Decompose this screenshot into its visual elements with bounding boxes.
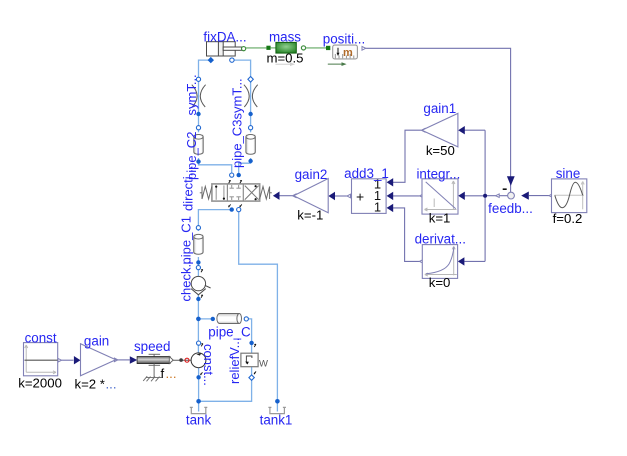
svg-text:const...: const...: [201, 344, 216, 386]
labels blue: [25, 29, 581, 427]
wire pump to node T: [198, 367, 200, 412]
svg-text:k=0: k=0: [429, 275, 451, 290]
relief valve reliefV: [241, 353, 268, 369]
wire const to gain: [62, 359, 74, 361]
svg-text:pipe_C3: pipe_C3: [230, 120, 245, 168]
svg-text:k=50: k=50: [426, 143, 455, 158]
port check bottom: [196, 297, 200, 301]
svg-text:fixDA...: fixDA...: [203, 29, 246, 44]
arrow into gain1: [458, 126, 465, 134]
wire integrator input: [464, 195, 485, 197]
derivative block derivat: [422, 245, 457, 279]
symT orifice left: [192, 85, 206, 107]
svg-text:f: f: [161, 366, 165, 381]
port pipe_C3 top: [249, 126, 253, 130]
arrow add3 input1: [387, 178, 394, 186]
port cylinder bottom left: [208, 57, 214, 63]
wire valve P to pipe_C1: [198, 210, 231, 231]
wire node P to pipe_C: [198, 318, 214, 320]
position sensor positi: [333, 45, 358, 59]
flange rod circle: [242, 47, 246, 51]
svg-text:symT...: symT...: [230, 78, 245, 119]
wire cylinder right port to symT2: [232, 60, 251, 79]
port relief bottom: [249, 375, 254, 380]
wire derivative to add3 input3: [393, 208, 420, 262]
out arrow const: [58, 358, 62, 362]
svg-text:positi...: positi...: [323, 31, 365, 46]
svg-text:1: 1: [374, 200, 381, 215]
labels rotated: [179, 74, 245, 386]
port arrows small: [201, 270, 256, 376]
svg-text:k=2000: k=2000: [18, 376, 62, 391]
port pipe_C1 top: [196, 226, 200, 230]
junction feedback: [483, 194, 487, 198]
pipe_C3 pipe: [246, 135, 255, 155]
port pipe_C left: [211, 317, 215, 321]
arrow sine to feedback: [521, 192, 529, 200]
node P junction: [196, 317, 201, 322]
svg-text:k=1: k=1: [429, 210, 451, 225]
port pipe_C right: [244, 317, 248, 321]
svg-text:directi...: directi...: [181, 165, 196, 211]
valve left spring: [202, 187, 212, 200]
node T junction: [196, 399, 201, 404]
valve right spring: [260, 187, 270, 200]
wire feedback to junction: [485, 195, 508, 197]
flange mass a: [266, 46, 270, 50]
wire add3 to gain2: [335, 195, 348, 197]
wire valve T return to tank1: [239, 210, 278, 412]
tank1: [268, 407, 286, 413]
svg-text:m=0.5: m=0.5: [266, 50, 303, 65]
out arrow gain: [114, 358, 118, 362]
directional valve directi: [200, 180, 272, 207]
speed source: [130, 354, 173, 381]
svg-text:integr...: integr...: [416, 166, 460, 181]
svg-text:...: ...: [166, 366, 177, 381]
add3_1 block: [352, 177, 387, 215]
port symT2 top: [248, 77, 253, 83]
check valve check: [191, 276, 211, 294]
wire cylinder left port to symT1: [199, 60, 211, 79]
port symT1 bottom: [196, 112, 200, 116]
port pump bottom: [196, 375, 200, 379]
wire rod to mass: [246, 47, 267, 49]
svg-text:add3_1: add3_1: [344, 166, 389, 181]
port check top: [196, 266, 200, 270]
wire mass to sensor: [306, 47, 326, 49]
sensor arrow green: [328, 62, 347, 66]
port symT2 bottom: [248, 112, 252, 116]
arrowheads navy: [74, 126, 529, 364]
wire derivative input: [464, 260, 485, 262]
node tank1 junction: [275, 399, 280, 404]
pump const: [173, 353, 206, 368]
svg-text:check...: check...: [179, 257, 194, 302]
arrow add3 input3: [387, 204, 394, 212]
svg-text:k=2 *: k=2 *: [75, 376, 105, 391]
port valve B top: [237, 173, 241, 177]
svg-text:f=0.2: f=0.2: [553, 211, 583, 226]
wire pipe_C2 to valve port A: [199, 158, 232, 175]
port pipe_C3 bottom: [248, 159, 252, 163]
flange mass b: [301, 46, 305, 50]
out arrow gain2: [293, 194, 297, 198]
arrow gain2 to valve: [273, 192, 280, 200]
port pipe_C2 top: [196, 126, 200, 130]
port valve P bottom: [230, 207, 234, 211]
svg-text:+: +: [356, 189, 364, 205]
signal wires: [62, 48, 550, 360]
wire pipe_C to relief valve: [245, 319, 251, 353]
out arrow feedback: [496, 194, 500, 198]
out arrow integrator: [420, 194, 424, 198]
out arrow gain1: [421, 128, 425, 132]
wire gain to speed: [118, 359, 131, 361]
out arrow sensor: [362, 46, 366, 50]
wire junction vertical: [484, 130, 486, 261]
gain1 block: [422, 113, 458, 146]
out arrow derivative: [420, 260, 424, 264]
svg-text:tank1: tank1: [260, 413, 293, 428]
const block: [24, 343, 58, 376]
svg-text:symT...: symT...: [184, 74, 199, 115]
svg-text:...: ...: [106, 376, 117, 391]
symT orifice right: [244, 85, 258, 107]
wire gain1 to add3 input1: [393, 130, 421, 182]
svg-text:speed: speed: [134, 339, 170, 354]
speed ground: [143, 376, 161, 381]
svg-text:sine: sine: [556, 166, 581, 181]
port valve A top: [230, 173, 234, 177]
gain block: [81, 344, 116, 376]
values black: [18, 50, 582, 391]
port cylinder bottom right: [230, 58, 234, 62]
open arrows outputs: [58, 46, 553, 362]
wire symT1 to pipe_C2: [198, 81, 200, 132]
valve port arrows: [229, 180, 242, 207]
mass block: [276, 42, 296, 53]
port valve T bottom: [237, 208, 241, 212]
svg-text:gain: gain: [84, 333, 109, 348]
arrow into gain2: [328, 192, 335, 200]
port relief top: [249, 341, 253, 345]
svg-text:const: const: [25, 330, 57, 345]
wire gain2 to valve: [279, 195, 293, 197]
svg-text:mass: mass: [269, 30, 301, 45]
cylinder fixDA: [207, 42, 242, 56]
svg-text:tank: tank: [186, 413, 212, 428]
arrow into gain: [74, 356, 81, 364]
wire sine to feedback: [529, 195, 549, 197]
feedback block feedb: [503, 188, 515, 199]
pipe_C2 pipe: [194, 135, 203, 155]
port pump top: [197, 341, 201, 345]
svg-text:gain2: gain2: [295, 167, 328, 182]
svg-text:derivat...: derivat...: [415, 232, 466, 247]
wire pipe_C1 to check valve: [197, 257, 199, 277]
wire sensor to feedback: [366, 48, 511, 192]
wire integrator to add3 input2: [393, 195, 420, 197]
svg-text:pipe_C: pipe_C: [208, 325, 251, 340]
wire check valve to node P: [197, 295, 199, 354]
port pipe_C1 bottom: [196, 260, 200, 264]
wire to gain1 input: [464, 129, 485, 131]
port pipe_C2 bottom: [196, 159, 200, 163]
svg-text:reliefV...: reliefV...: [227, 338, 242, 385]
pipe_C pipe: [217, 314, 242, 324]
flange sensor: [326, 46, 330, 50]
arrow into feedback top: [507, 176, 515, 186]
wire symT2 to pipe_C3: [250, 81, 252, 132]
tank: [190, 407, 208, 413]
svg-text:W: W: [259, 359, 268, 370]
arrow add3 input2: [387, 192, 394, 200]
wire flange to mass: [271, 47, 276, 49]
mass arrow: [276, 62, 296, 66]
svg-text:gain1: gain1: [423, 101, 456, 116]
svg-text:m: m: [343, 47, 353, 59]
port symT1 top: [196, 77, 200, 81]
arrow into derivative: [458, 257, 465, 265]
pipe_C1 pipe: [194, 234, 203, 254]
hydraulic ports: [196, 57, 280, 404]
integrator block integr: [422, 179, 458, 214]
out arrow add3: [347, 194, 351, 198]
wire pipe_C3 to valve port B: [239, 158, 251, 175]
wire relief valve to node T: [199, 367, 252, 401]
out arrow sine: [549, 194, 553, 198]
svg-text:feedb...: feedb...: [488, 201, 533, 216]
gain2 block: [294, 179, 329, 213]
arrow into integrator: [458, 192, 465, 200]
sine block: [552, 179, 587, 213]
svg-text:k=-1: k=-1: [297, 207, 323, 222]
